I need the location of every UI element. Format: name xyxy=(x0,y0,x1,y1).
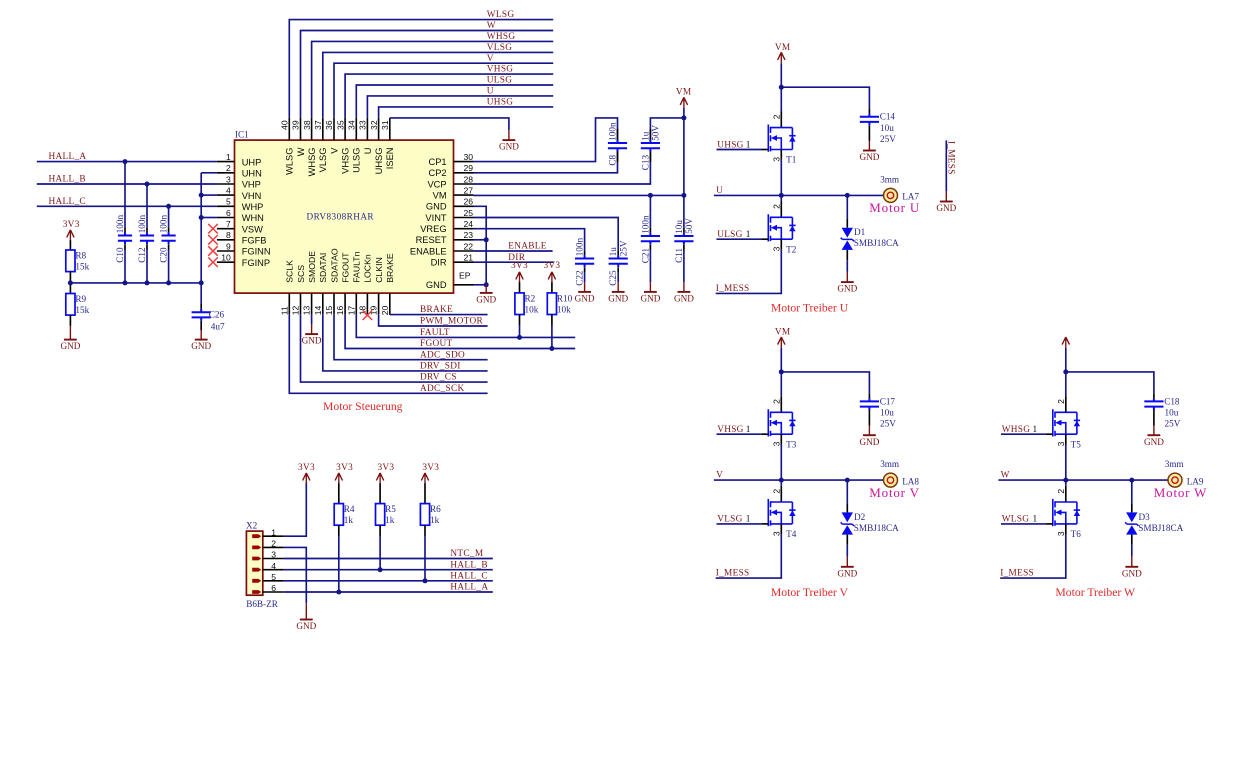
svg-text:C17: C17 xyxy=(880,396,896,406)
junction xyxy=(648,193,653,198)
pin 31 ISEN xyxy=(380,118,395,169)
svg-text:C22: C22 xyxy=(575,270,585,286)
junction xyxy=(1063,478,1068,483)
svg-text:I_MESS: I_MESS xyxy=(716,284,750,294)
wire R6 leads xyxy=(424,483,426,503)
supply 3V3/VM arrow xyxy=(778,52,785,63)
no-connect X xyxy=(363,310,373,320)
no-connect X xyxy=(208,246,218,256)
svg-text:GND: GND xyxy=(476,295,496,305)
pin 5 WHP xyxy=(217,197,264,212)
wire HALL_A xyxy=(37,161,217,163)
capacitor C25 xyxy=(609,255,628,267)
svg-text:VM: VM xyxy=(775,43,791,53)
svg-text:C12: C12 xyxy=(137,247,147,263)
svg-text:D2: D2 xyxy=(854,512,866,522)
wire C11 leads xyxy=(683,195,685,227)
wire net VLSG xyxy=(323,52,553,118)
pin 33 U xyxy=(358,118,373,154)
svg-text:3mm: 3mm xyxy=(1165,459,1184,469)
svg-text:6: 6 xyxy=(271,583,276,593)
wire C18 lower lead xyxy=(1153,410,1155,426)
svg-text:R5: R5 xyxy=(385,504,396,514)
svg-text:20: 20 xyxy=(380,306,390,316)
svg-text:GND: GND xyxy=(936,203,956,213)
svg-text:15k: 15k xyxy=(75,261,89,271)
svg-text:2: 2 xyxy=(1056,399,1066,404)
svg-text:C20: C20 xyxy=(159,247,169,263)
svg-text:GND: GND xyxy=(837,284,857,294)
pin 3 VHP xyxy=(217,174,261,189)
pin 8 FGFB xyxy=(217,230,267,245)
TVS diode D1 xyxy=(841,228,854,250)
pin 36 V xyxy=(324,118,339,154)
svg-text:PWM_MOTOR: PWM_MOTOR xyxy=(420,317,483,327)
pin 5 of X2 xyxy=(252,572,284,583)
LED pad LA8 xyxy=(884,473,898,487)
wire net ULSG xyxy=(356,85,553,118)
wire source T1 xyxy=(780,150,782,160)
ground xyxy=(499,130,519,151)
pin 1 of X2 xyxy=(252,527,284,538)
wire R10 leads xyxy=(551,282,553,293)
svg-text:GND: GND xyxy=(1144,437,1164,447)
pin 4 VHN xyxy=(217,186,261,201)
wire ENABLE xyxy=(474,250,553,252)
svg-text:3: 3 xyxy=(1056,441,1066,446)
wire phase U xyxy=(714,194,891,196)
no-connect X xyxy=(208,235,218,245)
no-connect X xyxy=(208,224,218,234)
wire D3 leads xyxy=(1131,480,1133,503)
svg-text:100n: 100n xyxy=(608,122,618,141)
svg-text:GND: GND xyxy=(575,294,595,304)
svg-text:GND: GND xyxy=(608,294,628,304)
svg-text:Motor Treiber W: Motor Treiber W xyxy=(1055,586,1136,599)
resistor R9 xyxy=(66,294,75,316)
svg-text:ADC_SCK: ADC_SCK xyxy=(420,384,464,394)
pin 19 CLKIN xyxy=(369,257,384,315)
ground xyxy=(1144,426,1164,447)
svg-text:1u: 1u xyxy=(608,247,618,257)
junction xyxy=(779,478,784,483)
svg-text:100n: 100n xyxy=(159,215,169,234)
pin 3 of X2 xyxy=(252,550,284,561)
pin 32 UHSG xyxy=(369,118,384,174)
svg-text:100n: 100n xyxy=(137,215,147,234)
svg-text:4: 4 xyxy=(226,186,231,196)
ground xyxy=(302,324,322,345)
wire C20 leads xyxy=(168,206,170,227)
svg-text:34: 34 xyxy=(347,120,357,130)
pin 21 DIR xyxy=(431,253,474,268)
svg-text:C10: C10 xyxy=(115,247,125,263)
wire source T6 to I_MESS xyxy=(1065,524,1067,535)
transistor T2 (N-MOSFET) xyxy=(768,214,795,241)
svg-text:HALL_B: HALL_B xyxy=(450,560,487,570)
svg-text:2: 2 xyxy=(771,489,781,494)
capacitor C11 xyxy=(674,233,693,245)
transistor T1 (N-MOSFET) xyxy=(768,125,795,152)
svg-text:DIR: DIR xyxy=(431,258,447,268)
wire EP xyxy=(474,284,487,286)
pin 25 VINT xyxy=(425,208,473,223)
svg-text:FAULTn: FAULTn xyxy=(352,251,362,282)
svg-text:R10: R10 xyxy=(557,294,573,304)
junction xyxy=(68,280,73,285)
svg-text:39: 39 xyxy=(291,120,301,130)
svg-text:30: 30 xyxy=(463,152,473,162)
wire net PWM_MOTOR xyxy=(379,315,488,326)
wire phase V xyxy=(714,479,891,481)
junction xyxy=(199,215,204,220)
svg-text:2: 2 xyxy=(226,163,231,173)
svg-text:R2: R2 xyxy=(525,294,536,304)
junction xyxy=(123,159,128,164)
pin EP GND xyxy=(426,271,474,291)
capacitor C26 xyxy=(192,309,211,321)
svg-text:VM: VM xyxy=(433,191,447,201)
capacitor C21 xyxy=(641,233,660,245)
svg-text:3: 3 xyxy=(271,550,276,560)
svg-text:HALL_C: HALL_C xyxy=(450,571,487,581)
svg-text:3V3: 3V3 xyxy=(298,463,315,473)
wire GND pin26 to EP xyxy=(474,206,487,284)
svg-text:ADC_SDO: ADC_SDO xyxy=(420,350,465,360)
svg-text:ENABLE: ENABLE xyxy=(508,242,546,252)
supply 3V3/VM arrow xyxy=(335,473,342,484)
wire VM branch to C14 xyxy=(781,87,869,108)
pin 11 SCLK xyxy=(279,260,294,315)
svg-text:1: 1 xyxy=(271,527,276,537)
svg-text:Motor V: Motor V xyxy=(869,485,920,500)
svg-text:27: 27 xyxy=(463,186,473,196)
svg-text:10u: 10u xyxy=(1165,408,1179,418)
ground xyxy=(640,282,660,303)
resistor R6 xyxy=(420,504,429,526)
junction xyxy=(779,193,784,198)
svg-text:SDATAO: SDATAO xyxy=(329,248,339,283)
no-connect X xyxy=(208,257,218,267)
wire I_MESS vertical xyxy=(945,140,947,191)
junction xyxy=(199,280,204,285)
svg-text:Motor W: Motor W xyxy=(1154,485,1207,500)
svg-text:B6B-ZR: B6B-ZR xyxy=(246,599,279,609)
svg-text:WHP: WHP xyxy=(242,202,264,212)
svg-text:15k: 15k xyxy=(75,305,89,315)
pin 27 VM xyxy=(433,186,474,201)
svg-text:WHSG: WHSG xyxy=(487,32,516,42)
svg-text:15: 15 xyxy=(324,306,334,316)
svg-text:10u: 10u xyxy=(880,408,894,418)
wire X2 pin1 to 3V3 xyxy=(284,482,307,536)
wire VM branch to C17 xyxy=(781,372,869,393)
svg-text:6: 6 xyxy=(226,208,231,218)
svg-text:R4: R4 xyxy=(344,504,355,514)
svg-text:T1: T1 xyxy=(786,155,797,165)
pin 23 RESET xyxy=(416,230,474,245)
svg-text:2: 2 xyxy=(771,204,781,209)
wire net DRV_SDI xyxy=(323,315,488,371)
svg-text:26: 26 xyxy=(463,197,473,207)
svg-text:VM: VM xyxy=(676,88,692,98)
svg-text:X2: X2 xyxy=(246,520,258,530)
svg-text:Motor Steuerung: Motor Steuerung xyxy=(323,400,403,413)
svg-text:10u: 10u xyxy=(674,220,684,234)
svg-text:2: 2 xyxy=(771,399,781,404)
pin 4 of X2 xyxy=(252,561,284,572)
svg-text:D3: D3 xyxy=(1139,512,1151,522)
svg-text:W: W xyxy=(487,21,496,31)
svg-text:SCS: SCS xyxy=(296,265,306,283)
wire net BRAKE xyxy=(390,314,488,316)
svg-text:22: 22 xyxy=(463,241,473,251)
svg-text:Motor Treiber U: Motor Treiber U xyxy=(771,301,849,314)
svg-text:VHSG: VHSG xyxy=(487,65,514,75)
wire net U xyxy=(367,96,553,118)
wire R8-R9 xyxy=(69,272,71,294)
wire net WLSG xyxy=(289,20,553,118)
resistor R4 xyxy=(334,504,343,526)
pin 24 VREG xyxy=(420,219,473,234)
svg-text:13: 13 xyxy=(302,306,312,316)
pin 37 VLSG xyxy=(313,118,328,172)
svg-text:FGOUT: FGOUT xyxy=(420,339,453,349)
pin 7 VSW xyxy=(217,219,263,234)
wire C21 leads xyxy=(649,195,651,227)
svg-text:WHSG: WHSG xyxy=(307,148,317,177)
svg-text:C13: C13 xyxy=(640,155,650,171)
junction xyxy=(484,237,489,242)
supply 3V3/VM arrow xyxy=(778,337,785,348)
pin 29 CP2 xyxy=(429,163,474,178)
svg-text:I_MESS: I_MESS xyxy=(1000,569,1034,579)
wire X2 signal xyxy=(284,558,493,560)
wire net V xyxy=(334,63,553,118)
svg-text:FAULT: FAULT xyxy=(420,328,450,338)
junction xyxy=(336,590,341,595)
junction xyxy=(845,193,850,198)
svg-text:GND: GND xyxy=(837,568,857,578)
wire HALL_B xyxy=(37,183,217,185)
svg-text:32: 32 xyxy=(369,120,379,130)
ground xyxy=(60,326,80,351)
wire SMODE to ground xyxy=(311,315,313,325)
svg-text:2: 2 xyxy=(771,114,781,119)
svg-text:VHSG: VHSG xyxy=(341,148,351,174)
pin 22 ENABLE xyxy=(410,241,474,256)
capacitor C10 xyxy=(118,232,132,244)
capacitor C18 xyxy=(1144,398,1163,410)
svg-text:VREG: VREG xyxy=(420,224,446,234)
svg-text:VLSG: VLSG xyxy=(487,43,512,53)
wire VREG to C22 xyxy=(474,229,585,251)
svg-text:C8: C8 xyxy=(608,155,618,166)
transistor T6 (N-MOSFET) xyxy=(1053,499,1080,526)
wire gate T2 xyxy=(717,238,763,240)
svg-text:UHN: UHN xyxy=(242,169,262,179)
ground xyxy=(859,141,879,162)
svg-text:ENABLE: ENABLE xyxy=(410,246,447,256)
wire net FAULT xyxy=(356,315,575,338)
svg-text:GND: GND xyxy=(191,341,211,351)
svg-text:10k: 10k xyxy=(525,304,539,314)
svg-text:C11: C11 xyxy=(674,248,684,263)
wire R2 leads xyxy=(519,282,521,293)
svg-text:U: U xyxy=(487,87,494,97)
junction xyxy=(423,578,428,583)
svg-text:CLKIN: CLKIN xyxy=(374,257,384,283)
wire net WHSG xyxy=(312,41,554,118)
svg-text:VCP: VCP xyxy=(427,179,446,189)
svg-text:HALL_A: HALL_A xyxy=(450,583,488,593)
wire gate T1 xyxy=(717,149,763,151)
svg-text:8: 8 xyxy=(226,230,231,240)
svg-text:LOCKn: LOCKn xyxy=(363,254,373,283)
svg-text:100n: 100n xyxy=(115,215,125,234)
svg-text:3: 3 xyxy=(1056,531,1066,536)
svg-text:HALL_C: HALL_C xyxy=(49,197,86,207)
svg-text:FGINN: FGINN xyxy=(242,247,271,257)
svg-text:FGFB: FGFB xyxy=(242,236,267,246)
svg-text:GND: GND xyxy=(499,142,519,152)
svg-text:UHSG: UHSG xyxy=(487,98,514,108)
junction xyxy=(484,282,489,287)
transistor T3 (N-MOSFET) xyxy=(768,409,795,436)
wire CP2 to C8 xyxy=(474,152,618,173)
svg-text:3V3: 3V3 xyxy=(336,463,353,473)
junction xyxy=(166,280,171,285)
ground xyxy=(296,603,316,631)
junction xyxy=(199,193,204,198)
supply 3V3/VM arrow xyxy=(376,473,383,484)
wire drain T1 xyxy=(780,87,782,111)
svg-text:12: 12 xyxy=(291,306,301,316)
svg-text:35: 35 xyxy=(335,120,345,130)
wire gate T6 xyxy=(1001,523,1047,525)
ground xyxy=(1122,557,1142,579)
svg-text:EP: EP xyxy=(459,271,471,281)
svg-text:36: 36 xyxy=(324,120,334,130)
svg-text:GND: GND xyxy=(426,202,447,212)
svg-text:V: V xyxy=(329,147,339,154)
svg-text:GND: GND xyxy=(640,294,660,304)
resistor R2 xyxy=(515,293,524,315)
ground xyxy=(191,330,211,351)
LED pad LA9 xyxy=(1168,473,1182,487)
svg-text:VLSG: VLSG xyxy=(318,148,328,173)
svg-text:R9: R9 xyxy=(75,294,86,304)
svg-text:10u: 10u xyxy=(880,123,894,133)
svg-text:3: 3 xyxy=(771,531,781,536)
pin 35 VHSG xyxy=(335,118,350,174)
wire VM vertical (Motor Treiber U) xyxy=(780,63,782,87)
wire VM branch to C18 xyxy=(1066,372,1154,393)
wire VM vertical xyxy=(683,108,685,195)
svg-text:50V: 50V xyxy=(684,218,694,234)
LED pad LA7 xyxy=(884,188,898,202)
pin 34 ULSG xyxy=(347,118,362,173)
junction xyxy=(845,478,850,483)
pin 6 WHN xyxy=(217,208,264,223)
svg-text:CP2: CP2 xyxy=(429,168,447,178)
pin 6 of X2 xyxy=(252,583,284,594)
svg-text:25V: 25V xyxy=(880,134,896,144)
svg-text:T5: T5 xyxy=(1071,439,1082,449)
transistor T5 (N-MOSFET) xyxy=(1053,409,1080,436)
svg-text:SMBJ18CA: SMBJ18CA xyxy=(854,238,899,248)
ground xyxy=(837,272,857,294)
pin 9 FGINN xyxy=(217,241,271,256)
supply 3V3/VM arrow xyxy=(421,473,428,484)
svg-text:CP1: CP1 xyxy=(429,157,447,167)
junction xyxy=(378,567,383,572)
svg-text:T6: T6 xyxy=(1071,529,1082,539)
svg-text:3V3: 3V3 xyxy=(377,463,394,473)
svg-text:GND: GND xyxy=(302,336,322,346)
svg-text:1u: 1u xyxy=(640,131,650,141)
svg-text:GND: GND xyxy=(1122,568,1142,578)
svg-text:1k: 1k xyxy=(344,515,354,525)
svg-text:WHN: WHN xyxy=(242,213,264,223)
supply 3V3/VM arrow xyxy=(67,230,74,241)
pin 2 of X2 xyxy=(252,539,284,550)
svg-text:FGOUT: FGOUT xyxy=(340,252,350,283)
svg-text:3: 3 xyxy=(771,157,781,162)
wire DIR xyxy=(474,261,554,263)
wire R8 leads xyxy=(69,240,71,250)
svg-text:GND: GND xyxy=(674,294,694,304)
wire gate T3 xyxy=(717,433,763,435)
svg-text:50V: 50V xyxy=(651,125,661,141)
capacitor C22 xyxy=(575,255,594,267)
pin 18 LOCKn xyxy=(358,254,373,315)
svg-text:25V: 25V xyxy=(1165,419,1181,429)
svg-text:I_MESS: I_MESS xyxy=(716,569,750,579)
wire CP1 to C8 xyxy=(474,118,618,162)
svg-text:DRV_SDI: DRV_SDI xyxy=(420,362,461,372)
junction xyxy=(123,280,128,285)
svg-text:WLSG: WLSG xyxy=(285,148,295,175)
wire VINT to C25 xyxy=(474,218,619,251)
wire gate T4 xyxy=(717,523,763,525)
svg-text:10k: 10k xyxy=(557,304,571,314)
svg-text:DRV8308RHAR: DRV8308RHAR xyxy=(307,211,375,221)
wire source T4 to I_MESS xyxy=(780,524,782,535)
svg-text:37: 37 xyxy=(313,120,323,130)
svg-text:FGINP: FGINP xyxy=(242,258,270,268)
svg-text:HALL_B: HALL_B xyxy=(49,175,86,185)
svg-text:SCLK: SCLK xyxy=(285,260,295,283)
svg-text:C25: C25 xyxy=(608,270,618,286)
pin 38 WHSG xyxy=(302,118,317,177)
resistor R10 xyxy=(547,293,556,315)
svg-text:U: U xyxy=(716,186,723,196)
svg-text:T2: T2 xyxy=(786,244,797,254)
TVS diode D2 xyxy=(841,512,854,534)
wire R9 lead xyxy=(69,315,71,326)
svg-text:T3: T3 xyxy=(786,439,797,449)
wire X2 signal xyxy=(284,591,493,593)
supply 3V3/VM arrow xyxy=(548,272,555,283)
wire net ADC_SCK xyxy=(289,315,487,394)
ground xyxy=(936,192,956,213)
svg-text:C18: C18 xyxy=(1164,396,1180,406)
svg-text:3mm: 3mm xyxy=(880,174,899,184)
svg-text:11: 11 xyxy=(279,306,289,315)
wire net ADC_SDO xyxy=(334,315,488,360)
svg-text:100n: 100n xyxy=(640,215,650,234)
